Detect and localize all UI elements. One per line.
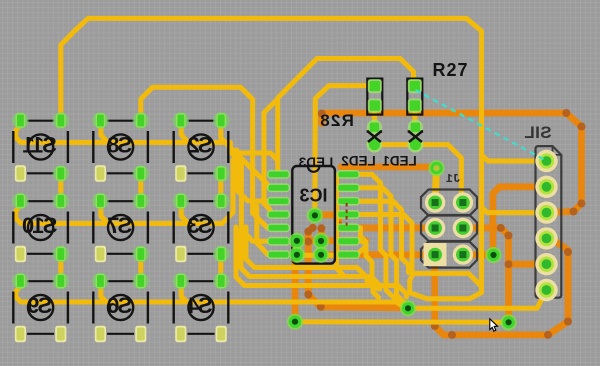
- IC3 pad L4: [267, 210, 290, 219]
- switch S4 pad 2: [213, 273, 229, 289]
- switch S6 pad 2: [133, 273, 149, 289]
- bendpoint dot: [562, 109, 570, 117]
- connector SIL pad 4: [535, 227, 557, 249]
- switch S11 pad 4: [53, 165, 69, 181]
- wire orange branch up to ML line: [308, 228, 321, 308]
- wire strand turn east y285: [236, 227, 407, 297]
- IC3 pad R4: [337, 210, 360, 219]
- connector J1 pad 4: [453, 218, 473, 238]
- bendpoint dot: [448, 331, 456, 339]
- svg-text:S7: S7: [107, 213, 132, 238]
- bendpoint dot: [578, 200, 586, 208]
- switch S6 pad 3: [95, 326, 106, 342]
- via IC3 grid 1: [289, 233, 305, 249]
- wire column vertical lower: [58, 254, 63, 282]
- svg-text:S11: S11: [23, 133, 57, 158]
- wire IC3 pad12 fan to ring: [358, 201, 409, 272]
- svg-text:S8: S8: [107, 133, 132, 158]
- wire IC3 pad10 stub: [358, 228, 366, 242]
- svg-text:S10: S10: [22, 213, 57, 238]
- connector SIL pad 2: [535, 176, 557, 198]
- bendpoint dot: [335, 221, 343, 229]
- IC3 pad R7: [337, 250, 360, 259]
- wire orange to via V3: [321, 307, 408, 308]
- bendpoint dot: [304, 228, 312, 236]
- bendpoint dot: [431, 322, 439, 330]
- bendpoint dot: [317, 303, 325, 311]
- via V2 right of J1: [485, 247, 501, 263]
- IC3 pad L1: [267, 170, 290, 179]
- wire column vertical upper: [138, 174, 143, 202]
- bendpoint dot: [304, 291, 312, 299]
- resistor R28 body: [367, 79, 382, 115]
- bendpoint dot: [309, 224, 317, 232]
- via V5 bottom: [501, 314, 517, 330]
- IC3 pad L2: [267, 183, 290, 192]
- bendpoint dot: [578, 123, 586, 131]
- LED LED2 cathode pad: [366, 137, 382, 153]
- wire orange J1 bottom-right to via V2: [463, 251, 494, 258]
- wire S11 top loop and octagon ring: [61, 18, 482, 298]
- bendpoint dot: [505, 232, 513, 240]
- switch S10 silkscreen: [13, 201, 68, 254]
- switch S4 pad 3: [175, 326, 186, 342]
- wire strand to IC3 pad7: [257, 206, 270, 255]
- wire S2 pin to row1: [181, 125, 190, 143]
- via IC3 grid 2: [313, 233, 329, 249]
- switch S8 pad 3: [95, 165, 106, 181]
- resistor R28 pad: [368, 79, 382, 93]
- switch S10 pad 2: [53, 193, 69, 209]
- wire column vertical lower: [218, 254, 223, 282]
- switch S8 silkscreen: [93, 121, 148, 174]
- switch S3 pad 4: [213, 246, 229, 262]
- resistor R27 body: [407, 79, 422, 115]
- switch S9 pad 2: [53, 273, 69, 289]
- mouse cursor: [490, 319, 498, 331]
- wire row3 horizontal to via V3: [16, 286, 406, 309]
- switch S7 pad 2: [133, 193, 149, 209]
- switch S3 pad 3: [175, 246, 186, 262]
- bendpoint dot: [564, 248, 572, 256]
- wire orange via row to J1 bottom-left: [322, 251, 434, 258]
- wire S3 pin to row2: [181, 206, 190, 224]
- wire column vertical upper: [218, 174, 223, 202]
- wire S7 pin to row2: [101, 206, 110, 224]
- connector J1 pin1 square: [424, 243, 447, 266]
- wire R27 to LED1: [412, 106, 417, 128]
- switch S8 pad 2: [133, 112, 149, 128]
- switch S4 silkscreen: [174, 281, 229, 334]
- bendpoint dot: [505, 260, 513, 268]
- switch S11 pad 3: [15, 165, 26, 181]
- via V3 bottom: [400, 300, 416, 316]
- switch S3 pad 1: [173, 193, 189, 209]
- wire IC3 pad1 up over to R27 top: [278, 59, 415, 163]
- LED LED1 anode pad: [408, 120, 423, 135]
- connector J1 pad 6: [453, 244, 473, 264]
- switch S7 pad 1: [92, 193, 108, 209]
- wire S8 pin to row1: [101, 125, 110, 143]
- IC3 pad R3: [337, 197, 360, 206]
- switch S8 pad 1: [92, 112, 108, 128]
- via inside IC3 top: [307, 207, 323, 223]
- wire orange via row east: [297, 237, 366, 244]
- bendpoint dot: [318, 110, 326, 118]
- connector J1 pad 3: [425, 218, 445, 238]
- svg-text:R28: R28: [319, 111, 354, 130]
- IC IC3 body: [292, 166, 335, 264]
- switch S10 pad 3: [15, 246, 26, 262]
- switch S6 pad 4: [135, 326, 146, 342]
- IC3 pad R5: [337, 223, 360, 232]
- switch S2 pad 1: [173, 112, 189, 128]
- wire orange J1 middle-right down to via V5: [463, 228, 509, 322]
- bendpoint dot: [317, 224, 325, 232]
- wire orange via5 to J1 middle-left: [315, 215, 435, 228]
- LED LED2 cathode mark: [368, 130, 381, 142]
- IC3 pad L3: [267, 197, 290, 206]
- wire via V1 to J1 top-left: [435, 169, 436, 203]
- wire row1 end to IC3 pad6: [230, 143, 270, 242]
- wire orange net top horizontal to SIL pad3: [322, 113, 582, 213]
- svg-text:LED1: LED1: [382, 154, 417, 169]
- switch S8 pad 4: [133, 165, 149, 181]
- ratsnest R27 to SIL pad1: [416, 90, 546, 160]
- via V1 above J1: [428, 160, 444, 176]
- wire row2 overpass to IC3 pad1: [222, 153, 278, 224]
- switch S11 silkscreen: [13, 121, 68, 174]
- connector SIL pad 3: [535, 201, 557, 223]
- via IC3 grid 4: [313, 247, 329, 263]
- wire orange via4 down to via V4: [292, 255, 299, 322]
- wire R28 to LED2: [372, 106, 377, 128]
- connector J1 pad 5: [425, 244, 445, 264]
- switch S4 pad 4: [216, 326, 227, 342]
- switch S11 pad 1: [12, 112, 28, 128]
- via V4 bottom: [287, 314, 303, 330]
- wire strand turn east y267: [246, 227, 379, 298]
- wire tap to SIL pad1: [482, 155, 547, 161]
- switch S9 pad 4: [55, 326, 66, 342]
- svg-text:SIL: SIL: [524, 123, 552, 142]
- IC3 pad R2: [337, 183, 360, 192]
- wire IC3 pad13 fan to row3: [358, 188, 405, 304]
- connector SIL pad 6: [535, 279, 557, 301]
- IC3 pad R6: [337, 237, 360, 246]
- switch S3 silkscreen: [174, 201, 229, 254]
- svg-text:LED2: LED2: [341, 154, 376, 169]
- switch S9 pad 1: [12, 273, 28, 289]
- wire S8 over to IC3 pad5: [141, 87, 270, 227]
- LED LED1 cathode mark: [409, 130, 422, 142]
- wire IC3 pad11 fan to ring: [358, 215, 412, 272]
- connector SIL pad 1: [535, 150, 557, 172]
- wire orange J1 pin1 bottom run to SIL pad4: [435, 240, 568, 335]
- wire tap to SIL pad3: [482, 207, 547, 213]
- bendpoint dot: [550, 236, 558, 244]
- svg-text:S9: S9: [27, 293, 52, 318]
- svg-text:LED3: LED3: [298, 155, 333, 170]
- switch S7 pad 3: [95, 246, 106, 262]
- IC3 pad L5: [267, 223, 290, 232]
- wire via V3 to SIL pad6: [408, 290, 547, 308]
- IC3 pad L7: [267, 250, 290, 259]
- wire S4 pin to row3: [181, 286, 187, 302]
- resistor R28 pad: [368, 99, 382, 113]
- switch S9 silkscreen: [13, 281, 68, 334]
- svg-text:S2: S2: [188, 133, 213, 158]
- LED LED1 cathode pad: [407, 137, 423, 153]
- connector J1 body: [421, 190, 477, 268]
- wire row1 horizontal: [16, 125, 231, 143]
- via IC3 grid 3: [289, 247, 305, 263]
- wire row2 horizontal: [16, 206, 222, 224]
- wire strand turn east y276: [241, 230, 377, 289]
- switch S2 pad 3: [175, 165, 186, 181]
- switch S2 silkscreen: [174, 121, 229, 174]
- wire IC3 pad14 left stub down: [337, 174, 345, 276]
- resistor R27 pad: [408, 79, 422, 93]
- wire column vertical upper: [58, 174, 63, 202]
- switch S11 pad 2: [53, 112, 69, 128]
- switch S3 pad 2: [213, 193, 229, 209]
- switch S10 pad 1: [12, 193, 28, 209]
- wire via row strand east y255: [299, 247, 366, 255]
- bendpoint dot: [304, 238, 312, 246]
- switch S2 pad 4: [213, 165, 229, 181]
- wire via5 through notch to R28 top: [315, 86, 375, 213]
- wire via V4 to via V5: [295, 319, 509, 325]
- switch S10 pad 4: [53, 246, 69, 262]
- switch S9 pad 3: [15, 326, 26, 342]
- IC3 pad R1: [337, 170, 360, 179]
- switch S6 silkscreen: [93, 281, 148, 334]
- switch S7 silkscreen: [93, 201, 148, 254]
- resistor R27 pad: [408, 99, 422, 113]
- connector SIL pad 5: [535, 253, 557, 275]
- bendpoint dot: [544, 331, 552, 339]
- bendpoint dot: [497, 224, 505, 232]
- wire S6 pin to row3: [101, 286, 107, 302]
- wire column vertical lower: [138, 254, 143, 282]
- bendpoint dot: [564, 318, 572, 326]
- svg-text:IC3: IC3: [299, 186, 327, 206]
- svg-text:S6: S6: [107, 293, 132, 318]
- switch S2 pad 2: [213, 112, 229, 128]
- wire strand to IC3 pad4: [264, 99, 278, 215]
- svg-text:J1: J1: [446, 172, 460, 186]
- connector SIL body: [536, 146, 562, 298]
- switch S6 pad 1: [92, 273, 108, 289]
- LED LED2 anode pad: [367, 120, 382, 135]
- wire orange LED net to via V1: [341, 164, 437, 171]
- wire strand to IC3 pad3: [237, 150, 270, 201]
- connector J1 pad 1: [425, 192, 445, 212]
- ratsnest stub right of IC3: [346, 203, 348, 226]
- svg-text:S4: S4: [187, 293, 213, 318]
- switch S7 pad 4: [133, 246, 149, 262]
- IC3 pad L6: [267, 237, 290, 246]
- wire orange via stub: [318, 228, 325, 241]
- wire orange SIL pad2 down to via V2: [493, 187, 547, 254]
- wire IC3 pad14 fan to row3: [358, 174, 398, 302]
- wire IC3 pad9 fan: [358, 241, 380, 289]
- switch S4 pad 1: [173, 273, 189, 289]
- svg-text:S3: S3: [188, 213, 213, 238]
- wire LED cathodes to J1 top-right: [374, 145, 461, 203]
- wire S2 top-right diagonal to IC3 pad2: [221, 125, 270, 188]
- svg-text:R27: R27: [432, 60, 468, 80]
- wire orange tap to SIL pad5: [509, 261, 547, 268]
- connector J1 pad 2: [453, 192, 473, 212]
- bendpoint dot: [570, 208, 578, 216]
